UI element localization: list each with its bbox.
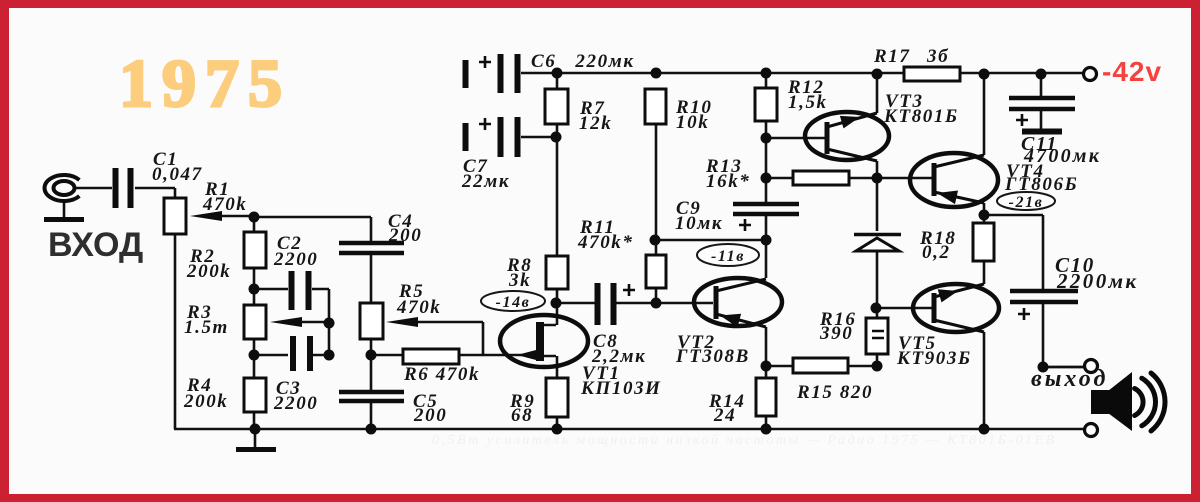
svg-text:4700мк: 4700мк [1023, 145, 1101, 167]
svg-text:200: 200 [388, 225, 422, 246]
svg-text:68: 68 [511, 405, 533, 426]
svg-text:КТ801Б: КТ801Б [883, 106, 959, 127]
svg-text:R6 470k: R6 470k [403, 364, 480, 385]
svg-text:выход: выход [1031, 366, 1108, 392]
svg-text:470k: 470k [396, 297, 441, 318]
svg-text:10k: 10k [676, 112, 709, 133]
svg-text:1975: 1975 [119, 45, 291, 121]
svg-text:16k*: 16k* [706, 171, 750, 192]
svg-text:R17: R17 [873, 46, 910, 67]
svg-text:КТ903Б: КТ903Б [896, 348, 972, 369]
svg-text:470k: 470k [202, 194, 247, 215]
svg-text:КП103И: КП103И [580, 378, 662, 399]
svg-text:3k: 3k [508, 270, 531, 291]
svg-text:0,047: 0,047 [152, 164, 203, 185]
svg-text:2200мк: 2200мк [1056, 269, 1138, 293]
svg-text:12k: 12k [579, 113, 612, 134]
svg-text:0,2: 0,2 [922, 242, 951, 263]
svg-text:-11в: -11в [711, 248, 745, 265]
svg-text:ВХОД: ВХОД [48, 226, 143, 264]
svg-text:470k*: 470k* [577, 232, 634, 253]
svg-text:-21в: -21в [1009, 194, 1044, 211]
svg-text:0,5Вт усилитель мощности низко: 0,5Вт усилитель мощности низкой частоты … [432, 433, 1057, 448]
svg-text:2200: 2200 [273, 249, 318, 270]
svg-text:22мк: 22мк [461, 171, 510, 192]
svg-text:C6 220мк: C6 220мк [531, 51, 635, 72]
svg-text:1.5m: 1.5m [184, 317, 229, 338]
svg-text:R15 820: R15 820 [796, 382, 873, 403]
svg-text:390: 390 [819, 323, 853, 344]
svg-text:200k: 200k [183, 391, 228, 412]
svg-text:-42v: -42v [1102, 56, 1162, 87]
svg-text:200: 200 [413, 405, 447, 426]
svg-text:10мк: 10мк [675, 213, 723, 234]
svg-text:3б: 3б [926, 46, 949, 67]
svg-text:24: 24 [713, 405, 736, 426]
svg-text:ГТ806Б: ГТ806Б [1004, 174, 1078, 195]
svg-text:-14в: -14в [496, 294, 531, 311]
svg-text:200k: 200k [186, 261, 231, 282]
svg-text:2200: 2200 [273, 393, 318, 414]
svg-text:ГТ308В: ГТ308В [675, 346, 750, 367]
svg-text:1,5k: 1,5k [788, 92, 828, 113]
